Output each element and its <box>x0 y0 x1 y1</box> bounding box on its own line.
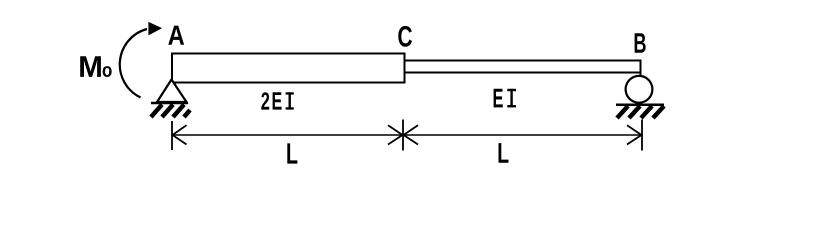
roller support circle <box>626 76 653 103</box>
roller ground hatching <box>617 106 664 118</box>
dimension line A-C <box>172 134 403 136</box>
roller ground line <box>616 104 664 107</box>
node A label <box>168 26 184 45</box>
pin support hatching <box>151 105 190 118</box>
span label L (C-B) <box>499 143 509 163</box>
beam segment CB (EI), thin rectangle <box>406 61 641 73</box>
label 2EI: letter E <box>273 92 282 109</box>
pin support ground line <box>151 102 188 105</box>
beam segment AC (2EI), thick rectangle <box>172 54 405 83</box>
dimension tick at C <box>402 120 404 151</box>
dimension tick at B <box>641 120 643 151</box>
moment label subscript o <box>103 66 112 77</box>
arrowhead left (at C tick, pointing left) <box>404 125 419 144</box>
node B label <box>635 33 646 52</box>
label EI: letter I (serif) <box>507 89 516 108</box>
arrowhead right (at B tick, pointing right) <box>627 125 642 144</box>
label 2EI: digit 2 <box>261 92 269 109</box>
pin support at A: triangle <box>157 80 187 103</box>
roller support at B: stem connector <box>640 72 642 76</box>
arrowhead left (at A tick) <box>173 125 187 144</box>
dimension line C-B <box>403 134 642 136</box>
arrowhead right (at C tick, pointing right) <box>388 125 403 144</box>
node C label <box>398 26 412 47</box>
moment arc arrow <box>120 23 161 98</box>
moment label M <box>80 56 101 77</box>
span label L (A-C) <box>287 143 297 163</box>
label EI: letter E <box>494 89 503 108</box>
label 2EI: letter I (serif) <box>286 92 294 109</box>
dimension tick at A <box>171 121 173 150</box>
